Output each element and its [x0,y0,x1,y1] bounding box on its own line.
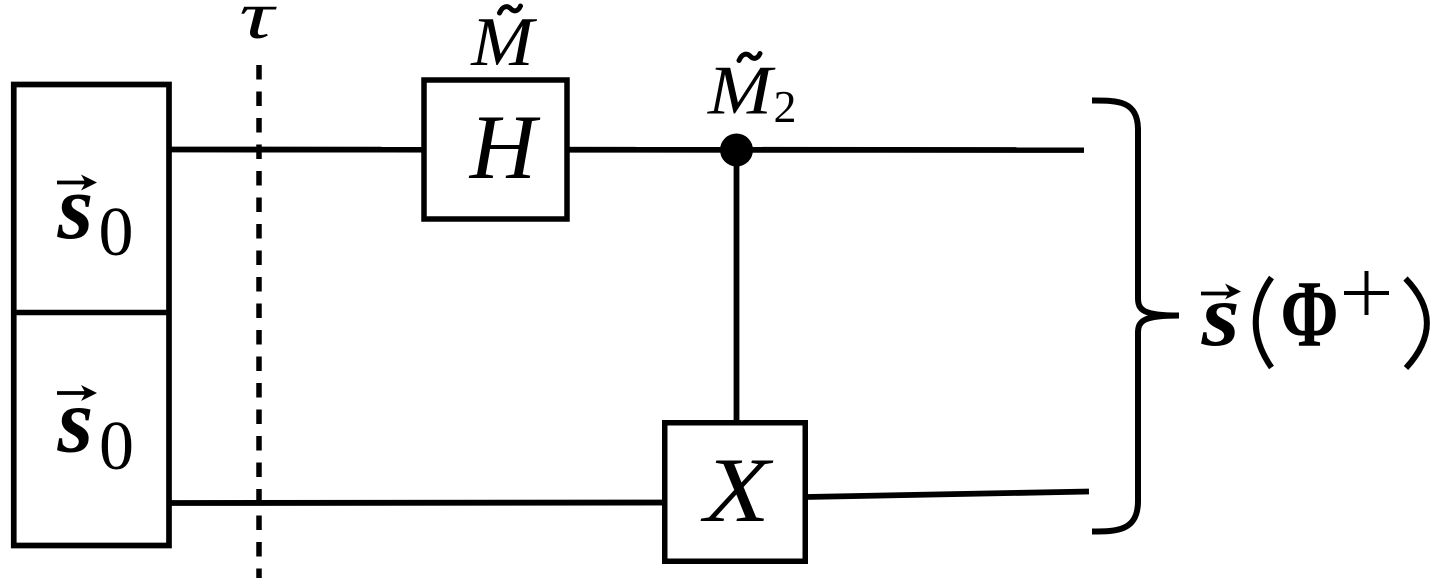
svg-text:M: M [470,2,537,80]
input register box [14,85,169,546]
svg-text:X: X [700,439,774,541]
wire top qubit [169,147,1084,153]
output label: s [1201,267,1240,365]
svg-text:0: 0 [99,408,134,485]
wire bottom qubit right segment [780,492,1089,498]
gate X box [665,423,806,562]
control dot [720,134,753,167]
svg-text:H: H [469,96,541,198]
label tau [239,0,277,53]
label M tilde: M [470,2,537,80]
label M2 tilde: tilde [739,54,760,61]
svg-text:Φ: Φ [1281,261,1339,367]
wire vertical control link [734,150,740,430]
svg-text:s: s [1201,267,1240,365]
barrier dashed line tau [256,65,262,578]
svg-text:2: 2 [774,81,797,132]
gate X letter [700,439,774,541]
svg-text:M: M [707,51,776,129]
label M2 tilde: M [707,51,776,129]
label s0 bottom: vector arrow [57,391,88,395]
output brace [1092,100,1179,531]
label M tilde: tilde [500,6,521,13]
label s0 top: vector arrow [57,181,88,185]
input register divider [11,310,172,316]
gate H box [424,80,567,219]
svg-text:τ: τ [239,0,277,53]
svg-text:s: s [57,370,94,472]
svg-text:0: 0 [99,194,134,271]
output label: close paren [1406,279,1427,369]
output label: vector arrow over s [1201,292,1230,296]
output label: open paren [1256,278,1272,368]
output label: superscript plus [1344,271,1389,315]
svg-text:s: s [57,156,94,258]
wire bottom qubit left segment [169,500,700,506]
